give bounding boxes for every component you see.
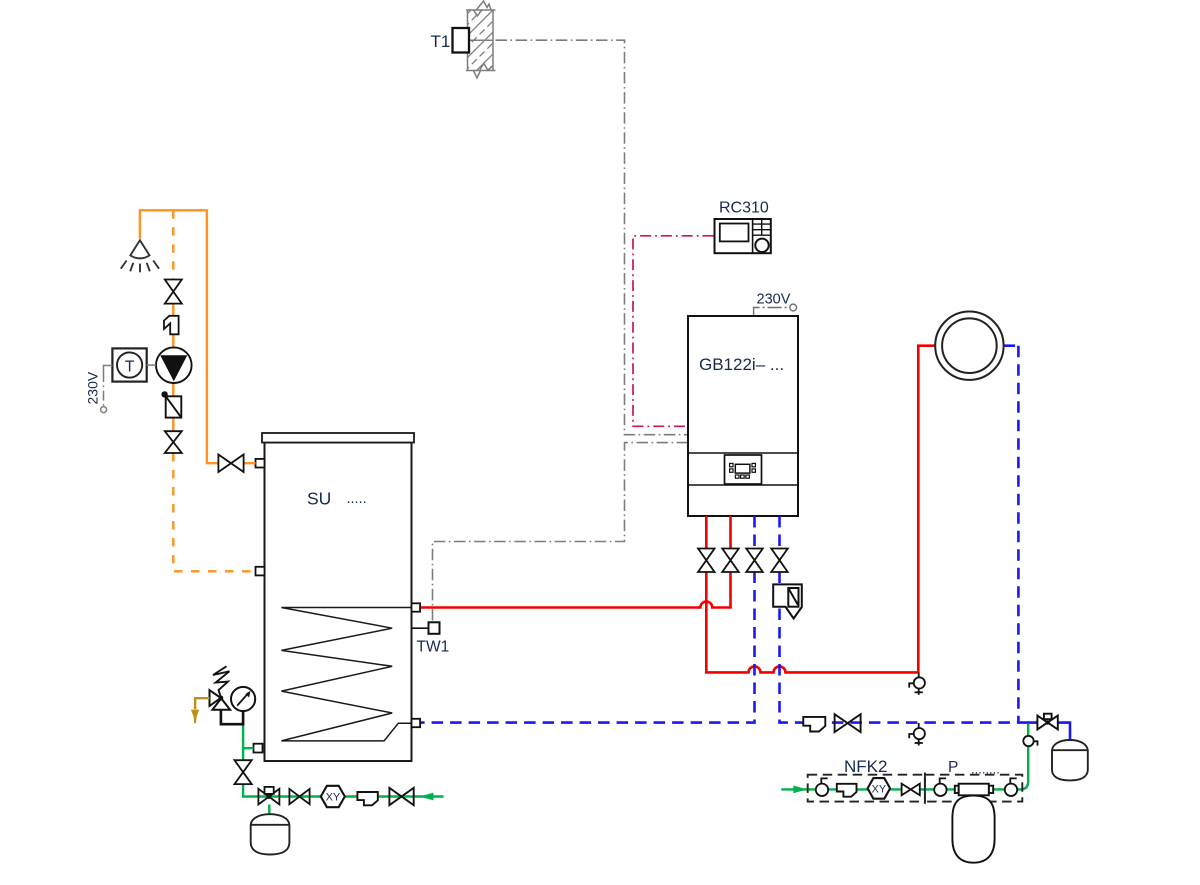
valve in NFK2	[902, 784, 920, 796]
svg-text:NFK2: NFK2	[844, 757, 887, 776]
sensor TW1 on tank	[412, 622, 440, 634]
shower head symbol	[121, 240, 159, 272]
valve cold water inlet	[389, 788, 413, 805]
drain valve on green fill line	[1023, 736, 1037, 746]
svg-text:SU: SU	[307, 489, 331, 509]
valve circulation lower	[165, 431, 182, 453]
svg-text:XY: XY	[326, 792, 341, 804]
tank port cold water (bottom left)	[254, 744, 263, 753]
sampling valve 2 (circle with handle)	[934, 778, 946, 796]
box P (dashed)	[925, 773, 1022, 804]
svg-text:P: P	[948, 759, 958, 776]
valve V3 boiler blue pipe 1	[746, 549, 763, 573]
safety valve (spring loaded)	[210, 666, 231, 710]
valve cold water (below tank port)	[235, 760, 252, 784]
balancing valve with sensor dot	[161, 391, 181, 417]
dosing unit P (cartridge)	[955, 784, 993, 796]
three-way fill valve with cap (to DHW expansion vessel)	[258, 787, 279, 805]
svg-text:XY: XY	[872, 784, 887, 796]
wire red flow pipe boiler outlet 1 (down to heating circuit)	[706, 346, 935, 673]
wire orange circulation pipe (dashed, to tank port)	[173, 453, 255, 571]
svg-text:T1: T1	[431, 32, 451, 51]
tank port return (right, blue)	[412, 719, 421, 727]
valve cold water line	[289, 789, 309, 804]
wire green cold water pipe (safety group to tank and line)	[243, 724, 443, 796]
check valve (hook symbol) in NFK2	[837, 784, 857, 797]
dosing tank (large vessel under P)	[952, 796, 994, 863]
drain valve on red pipe	[909, 672, 925, 694]
expansion vessel DHW (bottom left)	[251, 814, 290, 854]
svg-text:GB122i– ...: GB122i– ...	[699, 355, 784, 374]
wire 230V supply to thermostat	[101, 366, 113, 413]
tank port circulation (left)	[256, 567, 265, 576]
wire black safety group piping	[221, 710, 243, 724]
check valve (non-return) circulation	[164, 316, 179, 335]
svg-text:230V: 230V	[757, 292, 791, 308]
arrow cold water flow direction (left)	[420, 793, 434, 801]
wire green branch to DHW expansion vessel	[268, 805, 270, 815]
valve V4 boiler blue pipe 2	[771, 549, 788, 573]
heat exchanger coil inside tank	[281, 608, 411, 741]
pressure gauge block on blue return (boiler manometer)	[773, 584, 802, 618]
check valve (hook symbol) on blue return	[803, 717, 825, 732]
sampling valve 1 (circle with handle)	[816, 778, 828, 796]
sensor T1 (outdoor temperature sensor)	[453, 28, 494, 53]
pressure gauge (manometer)	[231, 687, 255, 711]
tank port DHW outlet (top left)	[256, 459, 265, 468]
thermostat T (timer box)	[112, 348, 156, 381]
wire RC310 bus cable (magenta dash-dot)	[633, 236, 714, 426]
sampling valve 3 (circle with handle)	[1005, 778, 1017, 796]
wire green supply line through NFK2 and P	[781, 788, 1018, 790]
check valve (hook symbol) cold water line	[357, 792, 377, 805]
tank SU body	[262, 433, 414, 761]
wire orange circulation pipe (dashed, down from manifold)	[172, 210, 174, 279]
filter XY (hexagon) in NFK2	[868, 778, 891, 799]
pump DHW circulation	[156, 347, 192, 383]
valve V2 boiler red pipe 2	[722, 549, 739, 573]
wire 230V boiler supply	[754, 304, 797, 315]
svg-text:T: T	[125, 359, 135, 376]
svg-text:.....: .....	[347, 491, 367, 507]
water meter XY (hexagon, cold water line)	[321, 786, 345, 807]
expansion vessel (heating, right)	[1052, 740, 1088, 780]
wire red flow pipe tank to boiler outlet 2	[420, 516, 731, 608]
wire T1 sensor cable (grey dash-dot)	[496, 40, 688, 435]
boiler GB122i body	[688, 316, 798, 516]
svg-text:RC310: RC310	[719, 200, 769, 217]
wire green fill line (to heating circuit)	[1017, 724, 1029, 790]
wire safety valve blow-off (dark yellow) with arrow	[191, 698, 210, 723]
svg-text:TW1: TW1	[417, 639, 450, 656]
boiler control panel	[725, 455, 762, 484]
wire blue return pipe boiler 1 (tank return, dashed)	[420, 516, 755, 723]
valve DHW outlet (at tank)	[218, 455, 243, 473]
wire orange DHW outlet pipe (tank to shower)	[140, 210, 256, 463]
drain valve on blue pipe	[909, 723, 925, 746]
tank port flow (right, red)	[412, 603, 421, 611]
valve blue return line	[835, 714, 861, 732]
box NFK2 (dashed)	[808, 775, 925, 802]
svg-text:........: ........	[971, 762, 1000, 777]
valve V1 boiler red pipe 1	[698, 549, 715, 573]
heating circuit (radiator double circle)	[935, 312, 1003, 380]
controller RC310	[715, 219, 771, 253]
fill valve with cap (near expansion vessel)	[1037, 714, 1057, 730]
svg-text:230V: 230V	[85, 371, 101, 404]
wire orange circulation pipe (solid segments between fittings)	[172, 304, 174, 432]
wall section (outdoor)	[464, 0, 497, 105]
arrow supply flow direction (into NFK2)	[793, 786, 806, 794]
wire TW1 sensor cable (grey dash-dot)	[433, 443, 688, 621]
valve circulation upper	[165, 280, 182, 304]
wire blue return pipe boiler 2 (heating return, dashed)	[780, 346, 1038, 723]
